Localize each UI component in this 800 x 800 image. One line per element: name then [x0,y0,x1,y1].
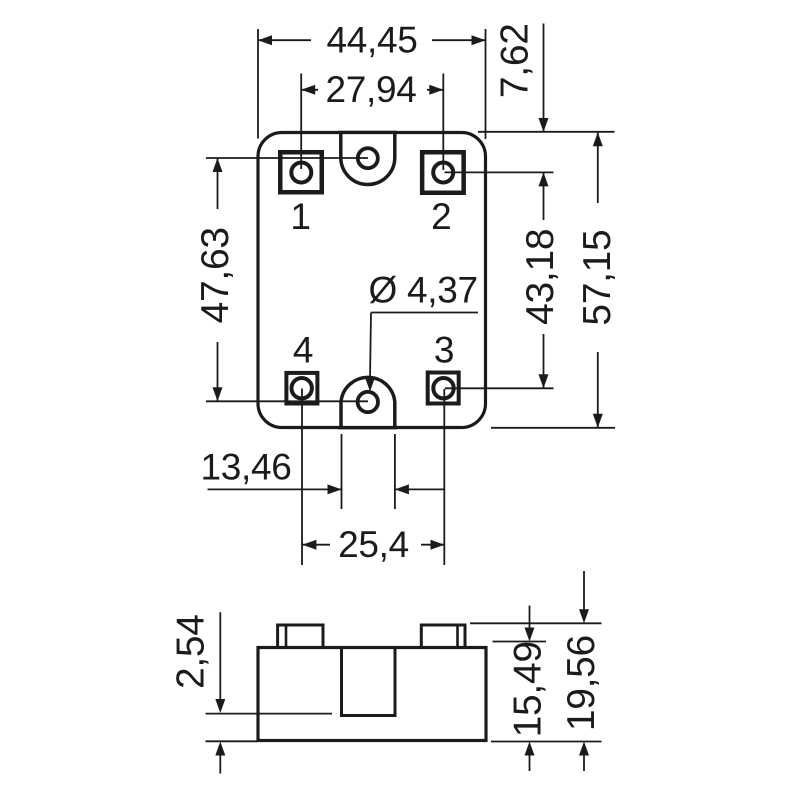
svg-text:15,49: 15,49 [507,641,550,737]
svg-text:Ø 4,37: Ø 4,37 [369,270,478,311]
svg-text:43,18: 43,18 [519,229,562,325]
svg-text:19,56: 19,56 [560,635,603,731]
svg-text:13,46: 13,46 [200,447,291,488]
svg-text:3: 3 [434,330,454,371]
svg-text:7,62: 7,62 [494,23,537,98]
svg-text:25,4: 25,4 [338,524,409,565]
svg-text:1: 1 [290,196,310,237]
svg-text:2: 2 [431,196,451,237]
svg-text:27,94: 27,94 [325,69,416,110]
svg-text:57,15: 57,15 [576,230,619,326]
svg-text:47,63: 47,63 [194,227,237,323]
svg-text:44,45: 44,45 [326,20,417,61]
svg-text:2,54: 2,54 [170,614,213,689]
svg-text:4: 4 [293,330,313,371]
